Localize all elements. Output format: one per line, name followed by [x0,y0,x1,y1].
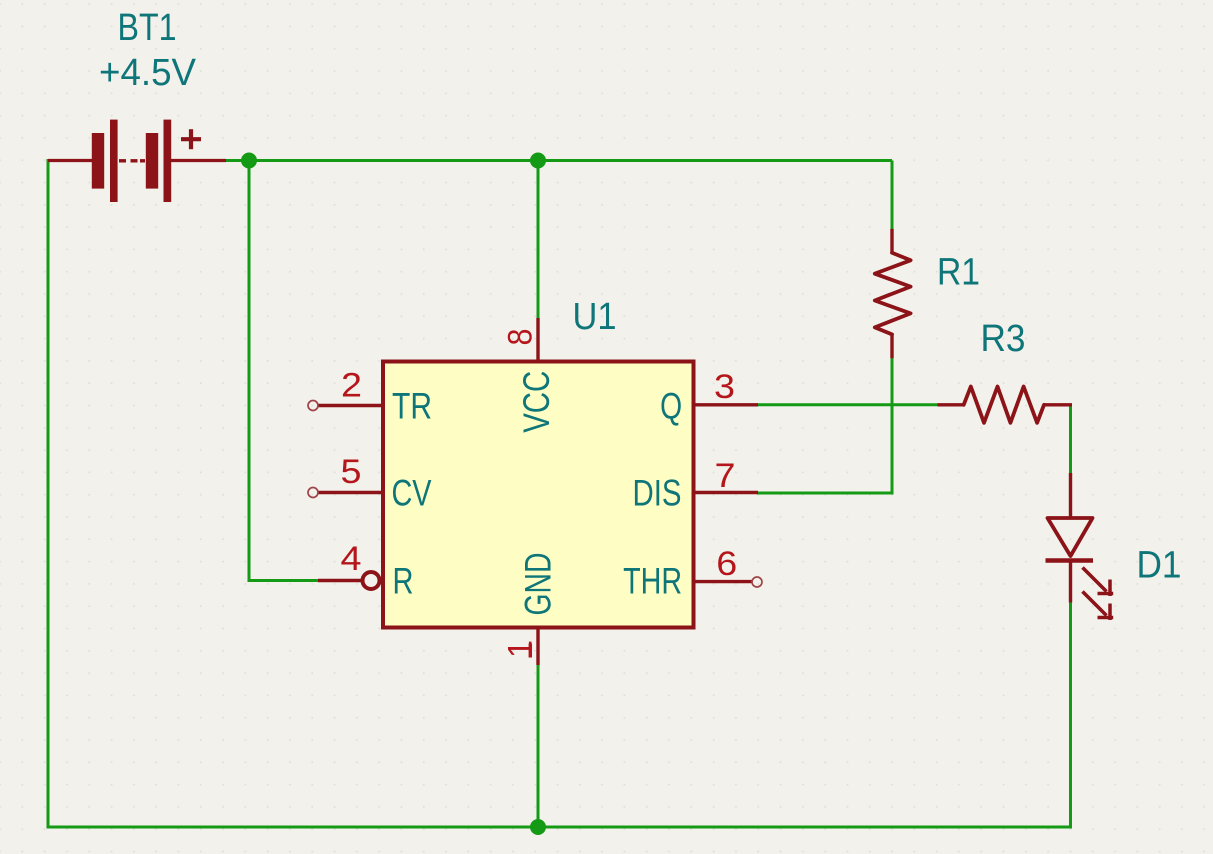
wire: vertical from junction B down to pin 8 [537,161,540,320]
junction at ground rail below pin 1 [530,819,546,835]
pin number 2 [341,367,362,405]
wire: vertical down from top rail to R1 [891,161,894,230]
wire: right vertical LED bottom to ground rail [1069,602,1072,829]
svg-text:CV: CV [392,473,432,514]
label D1 [1137,545,1182,587]
wire: vertical R1 bottom down to DIS level [891,358,894,495]
label +4.5V [99,52,197,94]
pin number 8 [502,329,540,346]
pin number 3 [714,368,735,406]
svg-text:THR: THR [623,561,682,602]
wire: vertical R3 right corner down to LED [1069,405,1072,474]
pin number 7 [715,457,736,495]
svg-text:2: 2 [341,367,362,405]
pin 6 THR lead [692,577,763,587]
pin name TR [392,386,432,427]
svg-text:R1: R1 [937,252,980,294]
svg-text:R: R [393,561,414,602]
svg-text:R3: R3 [981,318,1026,360]
svg-text:U1: U1 [573,296,617,338]
wire: horizontal into pin 4 [248,579,319,582]
label R1 [937,252,980,294]
svg-text:Q: Q [660,386,682,427]
pin name VCC [516,371,557,433]
LED D1 [1046,473,1114,620]
svg-text:1: 1 [502,640,540,658]
junction at battery output [241,153,257,169]
pin 5 CV lead [308,488,383,498]
pin 7 DIS lead [692,491,759,494]
svg-text:5: 5 [341,453,362,491]
svg-text:DIS: DIS [633,473,682,514]
pin name Q [660,386,682,427]
svg-text:6: 6 [716,545,737,583]
wire: horizontal Q output to R3 [757,403,939,406]
label U1 [573,296,617,338]
pin name R [393,561,414,602]
svg-text:BT1: BT1 [118,7,177,49]
wire: left vertical from battery minus down [47,159,50,829]
svg-text:7: 7 [715,457,736,495]
wire: top horizontal from battery plus to R1 drop [224,159,892,162]
svg-text:+4.5V: +4.5V [99,52,197,94]
wire: bottom horizontal ground rail [47,826,1073,829]
junction at VCC pin column [530,153,546,169]
resistor R3 [938,387,1073,423]
svg-text:VCC: VCC [516,371,557,433]
pin number 1 [502,640,540,658]
pin name CV [392,473,432,514]
label BT1 [118,7,177,49]
pin number 4 [341,540,362,578]
pin 3 Q lead [692,403,759,406]
pin name DIS [633,473,682,514]
resistor R1 [875,229,911,358]
svg-text:4: 4 [341,540,362,578]
pin name GND [518,553,559,616]
pin number 6 [716,545,737,583]
pin 1 GND lead [536,626,539,666]
pin 4 R lead with inversion bubble [318,572,380,589]
svg-text:TR: TR [392,386,432,427]
svg-text:GND: GND [518,553,559,616]
svg-text:D1: D1 [1137,545,1182,587]
pin name THR [623,561,682,602]
pin 8 VCC lead [536,318,539,361]
pin 2 TR lead [308,401,383,411]
pin number 5 [341,453,362,491]
label R3 [981,318,1026,360]
wire: vertical from junction A down to pin 4 level [248,161,251,583]
wire: horizontal DIS pin to R1 branch [757,492,894,495]
svg-text:3: 3 [714,368,735,406]
op-amp U1 body [383,362,694,628]
battery BT1 symbol [48,120,226,202]
svg-text:8: 8 [502,329,540,346]
wire: vertical pin 1 to ground rail [537,664,540,827]
